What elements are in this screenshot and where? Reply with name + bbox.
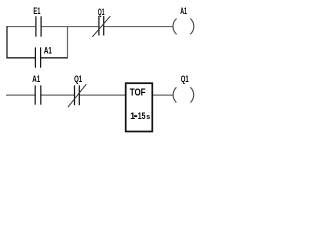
contact Q1 NC (rung1) — [92, 16, 110, 37]
wire rung2 left segment — [6, 94, 35, 96]
wire parallel branch bottom left — [6, 57, 35, 59]
svg-text:A1: A1 — [180, 6, 187, 16]
timer TOF box — [126, 83, 153, 131]
wire rung1 right segment — [104, 26, 173, 28]
contact Q1 NC (rung2) — [68, 84, 86, 107]
wire parallel branch bottom right — [41, 57, 68, 59]
svg-text:A1: A1 — [44, 46, 52, 56]
wire rung1 left segment — [7, 26, 35, 28]
wire rung1 middle segment — [41, 26, 99, 28]
wire parallel branch right vertical — [67, 26, 69, 58]
contact E1 — [36, 16, 41, 36]
svg-text:TOF: TOF — [130, 88, 146, 99]
wire TOF box to coil — [152, 94, 173, 96]
svg-text:A1: A1 — [32, 74, 40, 84]
contact A1 (rung2) — [35, 85, 41, 104]
coil Q1 (rung2) — [173, 87, 194, 102]
svg-text:Q1: Q1 — [98, 7, 105, 17]
wire rung2 to TOF box — [79, 94, 125, 96]
coil A1 (rung1) — [173, 19, 194, 35]
svg-text:s: s — [146, 114, 150, 121]
wire rung2 middle segment — [41, 94, 75, 96]
svg-text:E1: E1 — [33, 6, 40, 16]
svg-text:Q1: Q1 — [181, 74, 189, 84]
contact A1 (parallel branch) — [35, 47, 40, 67]
svg-text:15: 15 — [138, 111, 146, 121]
wire parallel branch left vertical — [6, 26, 8, 58]
svg-text:Q1: Q1 — [74, 74, 82, 84]
